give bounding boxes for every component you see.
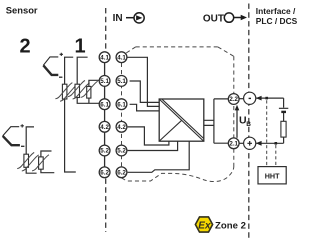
svg-text:IN: IN (113, 13, 123, 24)
RTD R5 (32, 155, 49, 171)
wire 2.1 to plus terminal (239, 142, 244, 144)
isolation amplifier U1 (159, 99, 204, 141)
svg-text:5.2: 5.2 (100, 148, 109, 155)
terminal 6.1 right (116, 99, 127, 110)
HHT hand-held terminal box (258, 167, 286, 184)
svg-text:4.2: 4.2 (100, 124, 109, 131)
supply loop right side wire (283, 98, 285, 143)
terminal 4.2 left (99, 121, 110, 132)
svg-text:2: 2 (20, 36, 31, 58)
device boundary bottom edge (122, 167, 234, 182)
svg-text:Ex: Ex (198, 220, 211, 231)
terminal 2.2 (228, 94, 239, 105)
svg-text:6.2: 6.2 (117, 170, 126, 177)
terminal 6.2 right (116, 167, 127, 178)
device boundary left edge through terminals 4.1..6.2 (121, 63, 123, 167)
svg-text:OUT: OUT (203, 13, 224, 24)
svg-text:Sensor: Sensor (6, 5, 38, 16)
terminal 4.2 right (116, 121, 127, 132)
Ex hazardous area symbol (195, 217, 212, 232)
RTD R3 with taps to 5.1 and 6.1 (89, 80, 100, 86)
minus terminal circle (244, 92, 256, 104)
svg-text:PLC / DCS: PLC / DCS (256, 16, 298, 26)
bracket channel C (group 2, spans 4.2-6.2) (26, 127, 36, 173)
dashed line junction top to HHT (266, 100, 268, 166)
svg-text:1: 1 (75, 36, 86, 58)
svg-text:2.2: 2.2 (229, 96, 238, 103)
supply loop top wire with arrowhead (256, 97, 283, 99)
device boundary right edge through terminals 2.2/2.1 (233, 56, 235, 166)
terminal 6.2 left (99, 167, 110, 178)
supply arrow UB between 2.1 and 2.2 (236, 110, 238, 138)
output symbol (circle with arrow out) (224, 13, 233, 22)
RTD R1 (55, 83, 77, 102)
dashed line junction bottom to HHT (275, 145, 277, 166)
terminal 2.1 (228, 138, 239, 149)
wire 6.2 to amplifier bottom pin C (128, 141, 190, 172)
terminal 5.2 right (116, 145, 127, 156)
RTD R2 (68, 81, 90, 100)
load resistor (281, 121, 286, 137)
device boundary top-right corner diagonal (218, 47, 234, 56)
bracket channel B (spans rows 4.1-6.1) with rail to 6.1 (77, 57, 99, 103)
thermocouple TC2 (3, 124, 25, 146)
thermocouple TC1 (43, 53, 63, 77)
svg-text:4.1: 4.1 (100, 54, 109, 61)
terminal 5.1 left (99, 76, 110, 87)
svg-text:HHT: HHT (265, 171, 280, 180)
terminal 5.1 right (116, 76, 127, 87)
svg-text:Interface /: Interface / (256, 6, 296, 16)
wire 6.1 to amplifier pin 3 (130, 104, 160, 111)
bracket channel A tall (spans rows 4.1-6.2) (65, 57, 76, 172)
svg-text:4.2: 4.2 (117, 124, 126, 131)
wire 4.2 to amplifier bottom pin A (128, 127, 169, 145)
bracket channel D (group 2 right) (41, 151, 54, 173)
terminal 4.1 right (116, 52, 127, 63)
junction dot top (265, 97, 268, 100)
RTD R4 (17, 153, 39, 172)
svg-text:Zone 2: Zone 2 (215, 220, 246, 231)
supply loop bottom wire with arrowhead (256, 142, 283, 144)
terminal 4.1 left (99, 52, 110, 63)
svg-text:5.1: 5.1 (100, 78, 109, 85)
terminal 6.1 left (99, 99, 110, 110)
wire 5.1 to amplifier pin 1 (130, 81, 160, 102)
wire 2.2 to minus terminal (239, 98, 244, 100)
plus terminal circle (244, 137, 256, 149)
device boundary top edge (136, 46, 218, 48)
wire 5.2 to amplifier bottom pin B (128, 141, 178, 150)
svg-text:5.2: 5.2 (117, 148, 126, 155)
svg-text:5.1: 5.1 (117, 78, 126, 85)
svg-text:2.1: 2.1 (229, 141, 238, 148)
amplifier right pins to terminals 2.2 / 2.1 (204, 99, 229, 143)
battery B1 (279, 107, 288, 109)
device boundary top-left diagonal dash (126, 47, 135, 53)
zone separator left (sensor side dashed line) (105, 8, 107, 52)
svg-text:6.1: 6.1 (117, 101, 126, 108)
zone separator right (interface side dashed line) (248, 4, 250, 239)
wire left terminal column bus (104, 62, 106, 167)
svg-text:4.1: 4.1 (117, 54, 126, 61)
wire 4.1 to amplifier pin 2 (127, 57, 159, 106)
svg-text:B: B (246, 121, 251, 128)
junction dot bottom (275, 142, 278, 145)
svg-text:6.2: 6.2 (100, 170, 109, 177)
svg-text:6.1: 6.1 (100, 101, 109, 108)
terminal 5.2 left (99, 145, 110, 156)
input symbol (line into circle with arrow) (126, 17, 134, 19)
